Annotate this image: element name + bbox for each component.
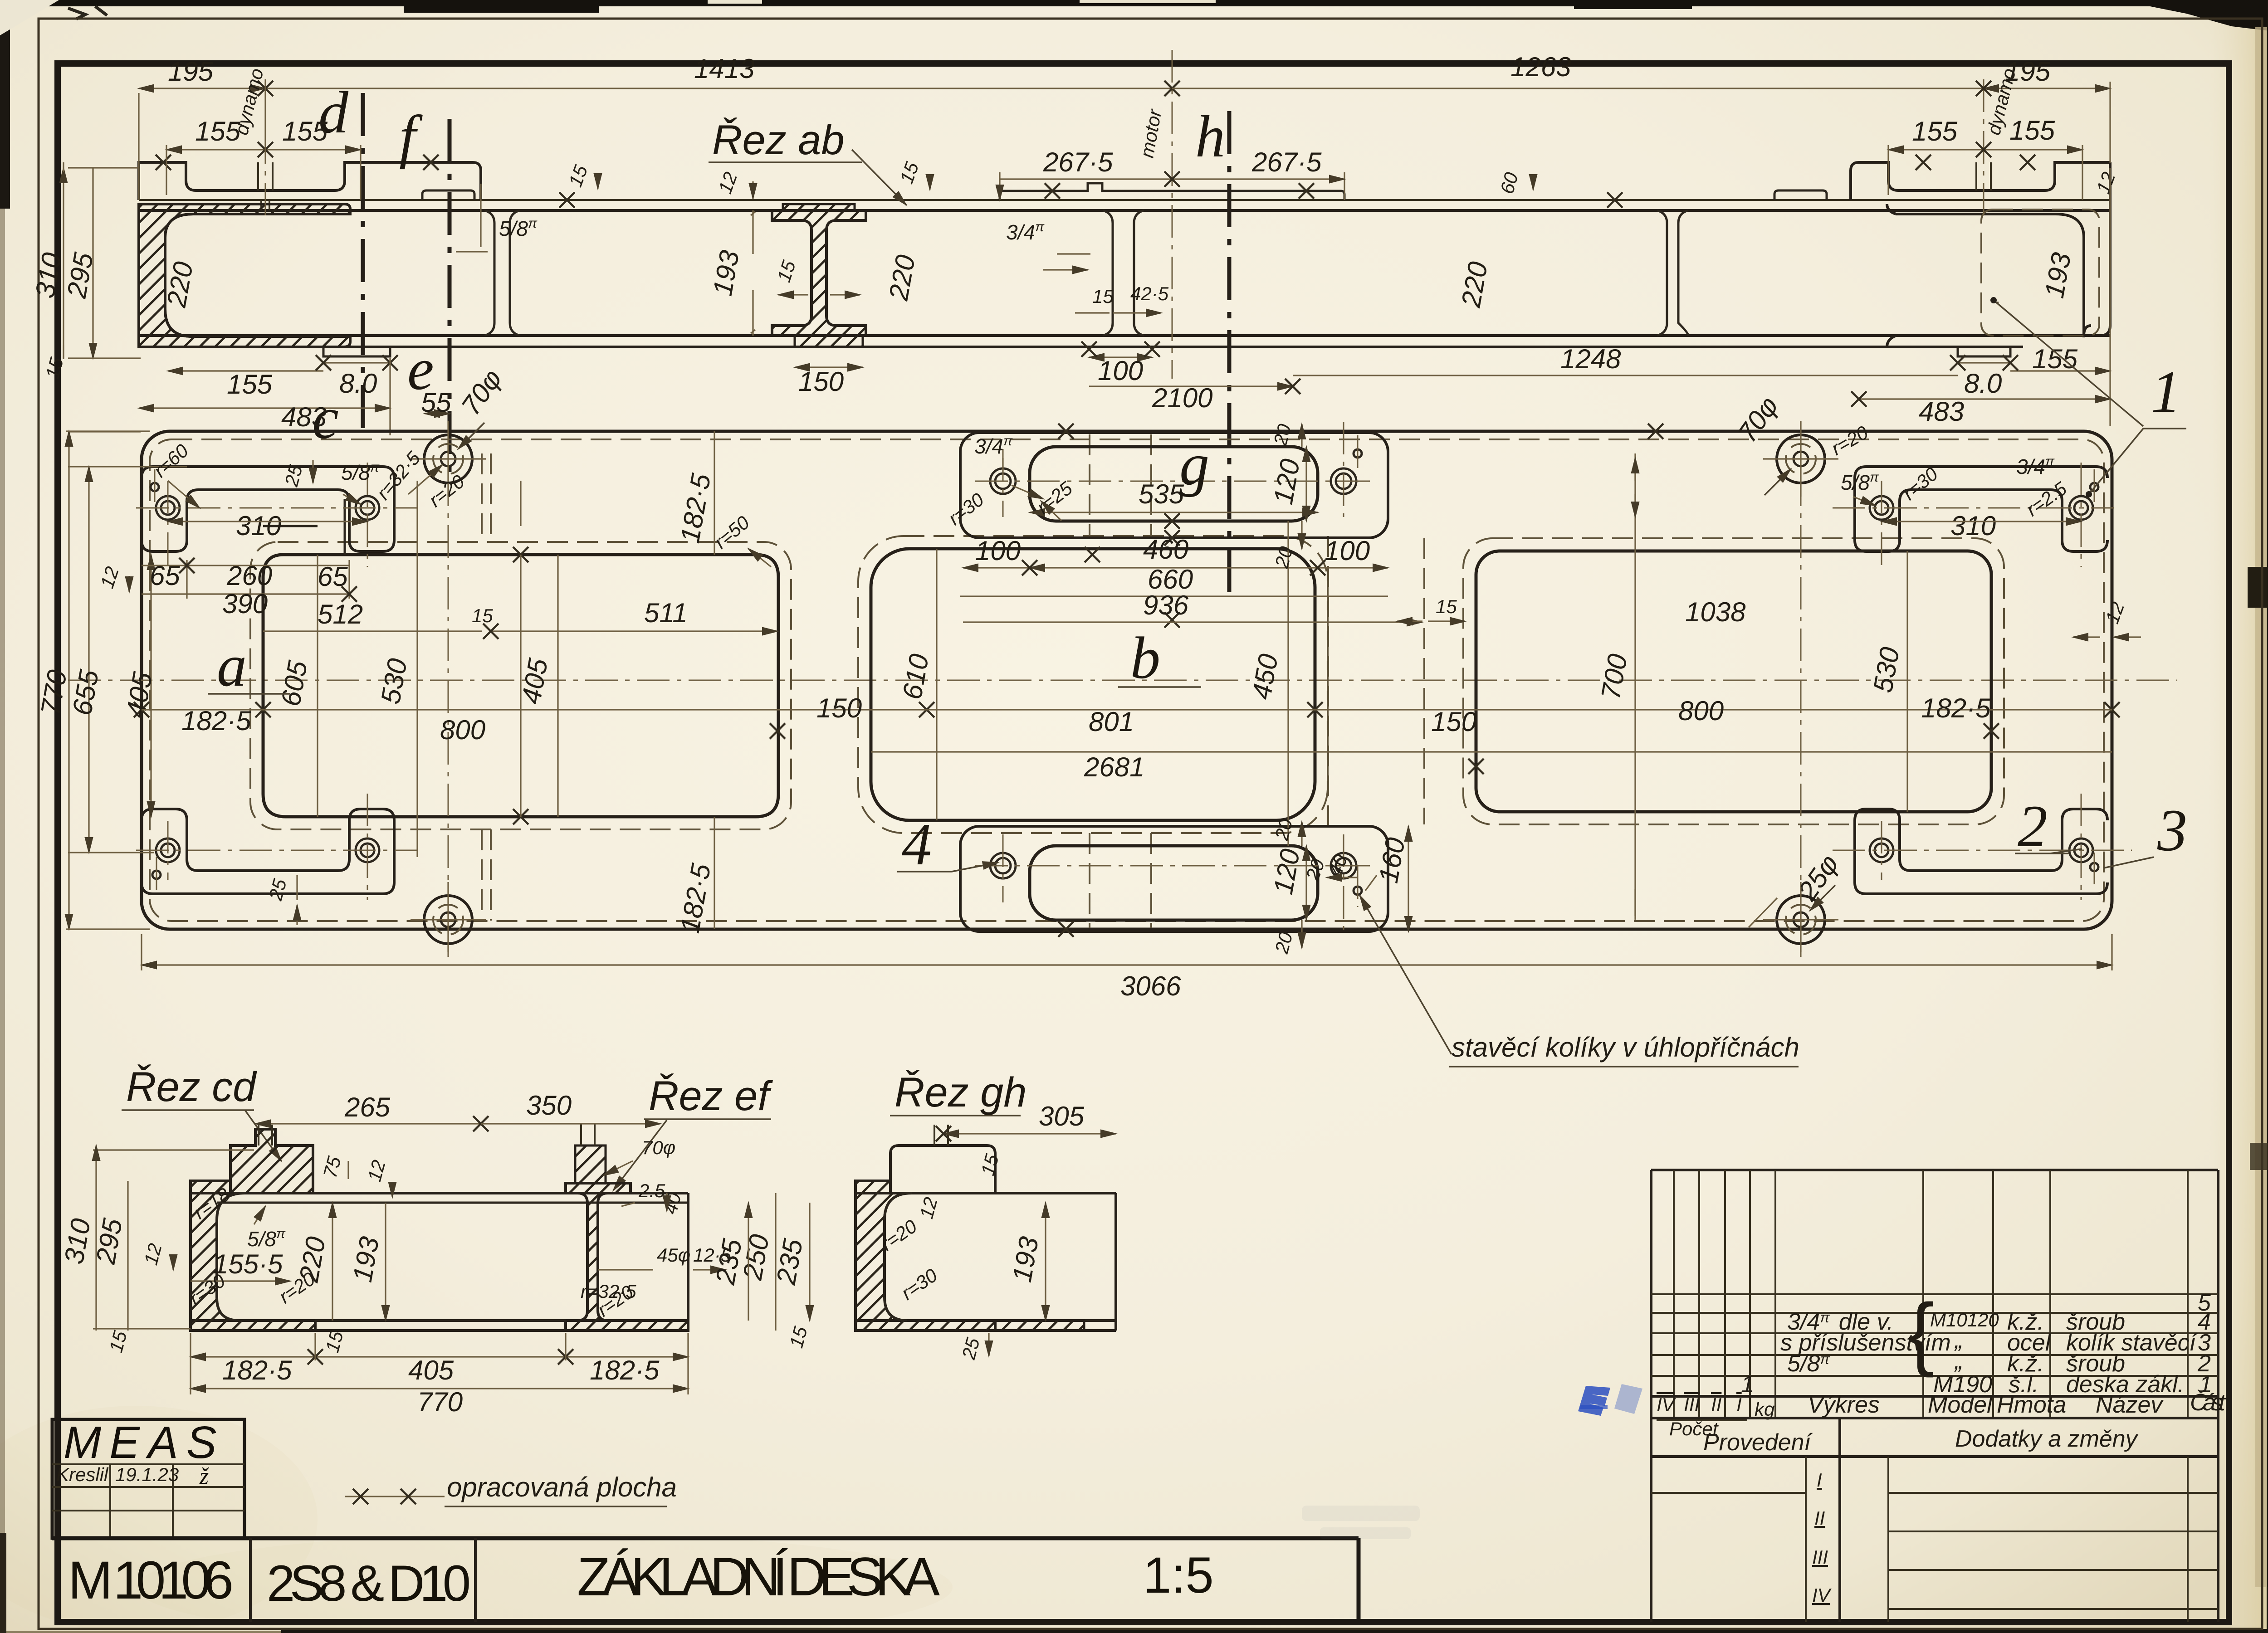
svg-text:100: 100: [1098, 356, 1143, 386]
svg-text:Výkres: Výkres: [1808, 1392, 1880, 1418]
ef boss on top: [575, 1146, 606, 1183]
svg-text:II: II: [1711, 1394, 1722, 1415]
dim 483 left: [139, 407, 390, 409]
svg-text:150: 150: [1431, 707, 1476, 737]
svg-text:512: 512: [318, 599, 363, 629]
bore circle 70 top-right: [1763, 421, 1838, 497]
svg-text:kg: kg: [1755, 1399, 1774, 1420]
pencil scribble top-left: [68, 6, 107, 19]
cd dim row 182.5 405 182.5: [191, 1356, 688, 1357]
section line c-d: [361, 93, 365, 433]
bore circle 25 bottom-right: [1763, 882, 1838, 952]
svg-text:182·5: 182·5: [222, 1355, 292, 1385]
ef hatched rib: [566, 1183, 688, 1331]
table top line: [1651, 1169, 2218, 1171]
right end channel outline (unhatched): [1887, 162, 2110, 347]
svg-text:8.0: 8.0: [339, 368, 377, 399]
svg-text:42·5: 42·5: [1130, 283, 1169, 304]
cd section band top line: [191, 1192, 688, 1194]
corner boss BR centerlines: [1833, 794, 2132, 900]
left vertical dim 655: [88, 467, 89, 853]
svg-text:IV: IV: [1812, 1584, 1832, 1606]
svg-text:155: 155: [195, 116, 241, 146]
corner boss BR bolts: [1870, 838, 2093, 862]
roman numeral column: [1806, 1457, 2188, 1622]
svg-text:8.0: 8.0: [1964, 368, 2002, 399]
gh boss stud lines: [934, 1125, 948, 1146]
left channel inner radius r30: [165, 214, 193, 336]
svg-text:2: 2: [2018, 793, 2048, 859]
corner boss BL pin: [152, 871, 161, 879]
section inner bottom line: [139, 334, 2110, 337]
corner boss BL centerlines: [136, 794, 417, 900]
top boss bolt right: [1331, 468, 1356, 494]
corner boss TL bolts: [156, 496, 379, 520]
svg-text:Řez cd: Řez cd: [126, 1064, 257, 1110]
dim 155 155 left: [166, 149, 361, 150]
cutout b: [871, 549, 1315, 820]
cutout right: [1476, 551, 1991, 812]
svg-text:770: 770: [417, 1387, 463, 1417]
cutout a hidden offset dashed: [250, 542, 791, 829]
ef boss stud lines: [581, 1124, 595, 1146]
plan horizontal centerline: [68, 680, 2177, 681]
svg-text:45φ: 45φ: [657, 1244, 690, 1266]
bottom slot cutout: [1030, 846, 1318, 920]
scan edge top: [0, 0, 2268, 6]
svg-text:Řez ef: Řez ef: [649, 1073, 773, 1119]
scan edge top-right corner blob: [2146, 0, 2268, 32]
cd hatched boss on top: [230, 1129, 313, 1193]
svg-text:M 10106: M 10106: [68, 1550, 234, 1610]
cd left hatched channel: [191, 1181, 315, 1331]
left vertical dim 770: [68, 431, 69, 929]
svg-text:350: 350: [526, 1090, 572, 1121]
hidden rib dashed pair x1062: [482, 453, 491, 921]
right end hidden pocket dashed: [1981, 210, 2099, 336]
svg-text:a: a: [217, 632, 247, 699]
dim 2100: [1089, 385, 1293, 387]
hatched middle I-beam rib: [772, 210, 866, 336]
svg-text:155·5: 155·5: [213, 1249, 283, 1279]
section line e-f: [448, 119, 452, 481]
gh inner radius: [885, 1193, 1116, 1321]
background rib pair at x2453-2500: [1103, 210, 1144, 336]
svg-text:1248: 1248: [1560, 344, 1621, 374]
svg-text:1: 1: [2151, 358, 2181, 425]
bottom dim line 155 8.0 left: [168, 363, 390, 371]
blue stamp: [1578, 1384, 1642, 1416]
scan stains: [0, 1406, 318, 1633]
left end channel hatched C-section: [139, 204, 350, 347]
top boss centerlines: [975, 422, 1374, 517]
cd right cavity rounded: [315, 1320, 566, 1322]
svg-text:Provedení: Provedení: [1703, 1429, 1813, 1456]
svg-text:Model: Model: [1928, 1392, 1993, 1418]
svg-text:155: 155: [282, 116, 328, 146]
section inner top line: [139, 209, 2110, 212]
dim 195 right: [1984, 88, 2110, 89]
cd cavity inner radius: [217, 1193, 245, 1321]
svg-text:„: „: [1954, 1348, 1963, 1374]
part rows horizontals: [1651, 1294, 2218, 1376]
corner boss TR pin: [2090, 483, 2098, 491]
svg-text:II: II: [1814, 1507, 1825, 1529]
surface finish x marks on section top: [156, 155, 171, 170]
svg-text:I: I: [1736, 1394, 1742, 1415]
bottom boss centerlines: [975, 834, 1374, 930]
svg-text:155: 155: [1912, 116, 1958, 146]
svg-text:800: 800: [440, 715, 485, 745]
svg-text:IV: IV: [1657, 1394, 1677, 1415]
svg-text:100: 100: [975, 536, 1021, 566]
centerline motor: [1172, 50, 1173, 379]
svg-text:3: 3: [2157, 797, 2187, 863]
svg-text:305: 305: [1039, 1101, 1085, 1131]
cd dim 770: [191, 1388, 688, 1389]
faint blue smudge stamp: [1302, 1506, 1420, 1539]
svg-text:{: {: [1907, 1287, 1935, 1378]
MEAS box frame: [52, 1419, 244, 1538]
cd dim 350 top: [481, 1123, 660, 1124]
svg-text:70φ: 70φ: [642, 1137, 675, 1158]
corner boss TR centerlines: [1833, 463, 2114, 567]
dim 195 left: [139, 88, 265, 89]
main 182.5/800/150/801 dim row line: [142, 709, 2112, 710]
bottom boss bolt right: [1331, 853, 1356, 878]
svg-text:Dodatky a změny: Dodatky a změny: [1955, 1426, 2139, 1452]
corner boss bottom-right: [1855, 809, 2107, 894]
svg-text:b: b: [1130, 624, 1160, 691]
svg-text:150: 150: [798, 366, 844, 397]
svg-text:182·5: 182·5: [590, 1355, 660, 1385]
section line g-h: [1227, 111, 1232, 596]
right bottom flange step: [1958, 347, 2010, 356]
title strip dividers: [250, 1538, 475, 1622]
svg-text:460: 460: [1143, 534, 1188, 565]
dim 155 155 right: [1888, 149, 2082, 150]
dim 267.5 267.5: [1000, 172, 1344, 200]
svg-text:260: 260: [226, 561, 272, 591]
svg-text:III: III: [1812, 1546, 1828, 1568]
bottom boss bolt left (item 4): [990, 853, 1016, 878]
svg-text:310: 310: [236, 511, 281, 541]
hatched I-beam top pad: [783, 204, 855, 210]
dim 3066 bottom: [142, 964, 2112, 965]
svg-text:1:5: 1:5: [1143, 1547, 1214, 1604]
svg-text:155: 155: [227, 369, 273, 400]
cd section bottom inner line: [191, 1319, 688, 1322]
corner boss BL bolts: [156, 838, 379, 862]
pocet column verticals: [1674, 1170, 1775, 1418]
dim 100 under rib2: [1089, 356, 1152, 358]
svg-text:155: 155: [2032, 344, 2078, 374]
dim 512 / 15 / 511 row: [263, 630, 777, 632]
svg-text:Název: Název: [2096, 1392, 2164, 1418]
left bottom flange step 8.0: [323, 347, 390, 356]
svg-text:MEAS: MEAS: [64, 1417, 225, 1468]
gh boss on top: [890, 1146, 995, 1193]
bore circle 70 bottom-left: [411, 882, 486, 952]
svg-text:2681: 2681: [1084, 752, 1144, 782]
bottom slot boss outline: [960, 826, 1388, 931]
cd end vertical: [191, 1181, 688, 1331]
plan inner dashed outline: [150, 439, 2104, 921]
svg-text:Kreslil: Kreslil: [56, 1464, 109, 1485]
cd section bottom outer line: [191, 1329, 688, 1332]
svg-text:3066: 3066: [1120, 971, 1181, 1001]
right dynamo boss top outline: [1851, 162, 2110, 200]
header row lines: [1651, 1396, 2218, 1418]
dim 65 65 260 390: [142, 560, 349, 599]
svg-text:ZÁKLADNÍ DESKA: ZÁKLADNÍ DESKA: [577, 1546, 940, 1607]
gh section band: [855, 1181, 1116, 1331]
svg-text:h: h: [1195, 103, 1225, 170]
vertical centerlines through bores: [448, 422, 1801, 957]
corner boss bottom-left: [142, 809, 394, 894]
title strip top line: [52, 1538, 1359, 1622]
svg-text:2S8 & D10: 2S8 & D10: [267, 1555, 471, 1612]
background rib pair at x3675: [1657, 210, 1688, 336]
dim 2681 line: [871, 751, 2112, 752]
plan outer outline: [142, 431, 2112, 929]
svg-text:Řez ab: Řez ab: [712, 117, 845, 163]
scan edge left: [0, 0, 5, 1633]
svg-text:2.5: 2.5: [638, 1180, 665, 1201]
svg-text:opracovaná plocha: opracovaná plocha: [447, 1472, 677, 1502]
right small boss: [1774, 190, 1827, 200]
cd section inner top line: [217, 1202, 688, 1204]
extension verticals left dims: [139, 82, 2110, 200]
corner boss BR pin: [2090, 863, 2098, 871]
section outer bottom line: [139, 346, 2023, 348]
MEAS box row lines: [52, 1464, 244, 1511]
svg-text:4: 4: [902, 811, 932, 877]
cd dim 265 top: [255, 1123, 481, 1124]
centerline dynamo left: [265, 79, 266, 218]
hatched I-beam lower pad 150: [795, 336, 863, 347]
svg-text:182·5: 182·5: [1921, 693, 1991, 723]
gh right bottom hatched flange: [995, 1321, 1084, 1331]
svg-text:483: 483: [281, 402, 327, 432]
svg-text:936: 936: [1143, 590, 1189, 620]
bottom boss dowel pin: [1354, 887, 1362, 895]
top boss bolt left 3/4: [990, 468, 1016, 494]
svg-text:M10120: M10120: [1930, 1309, 1999, 1331]
svg-text:III: III: [1684, 1394, 1700, 1415]
svg-text:ž: ž: [199, 1463, 209, 1489]
svg-text:1263: 1263: [1510, 52, 1571, 82]
top slot cutout: [1030, 447, 1318, 521]
svg-text:1413: 1413: [694, 54, 754, 84]
dim 55 near e line: [425, 413, 450, 414]
corner boss top-right: [1855, 467, 2107, 551]
middle motor boss top outline: [1000, 183, 1344, 200]
main column verticals: [1923, 1170, 2188, 1418]
bottom dim 8.0 155 right: [1958, 363, 2110, 371]
svg-text:15: 15: [1092, 286, 1114, 307]
svg-text:800: 800: [1678, 696, 1724, 726]
dims around cutout b: 100 460 100 660 936: [960, 568, 1422, 622]
dim 1263: [1172, 88, 1984, 89]
svg-text:195: 195: [168, 56, 214, 87]
svg-text:g: g: [1179, 431, 1209, 497]
background rib pair near x1100: [484, 210, 520, 336]
left vertical dim 405: [150, 555, 152, 817]
svg-text:65: 65: [318, 561, 348, 592]
svg-text:Hmota: Hmota: [1997, 1392, 2066, 1418]
gh left hatched wall: [855, 1181, 995, 1331]
svg-text:2100: 2100: [1152, 383, 1212, 413]
svg-text:1038: 1038: [1685, 597, 1746, 627]
svg-text:483: 483: [1919, 396, 1964, 427]
svg-text:150: 150: [816, 693, 862, 723]
rows in dodatky area: [1651, 1493, 2218, 1609]
hidden rib dashed pair between g-boss and b: [1090, 434, 1151, 928]
cutout a step lines top-left: [263, 499, 345, 555]
top boss dowel pin: [1354, 449, 1362, 458]
left extension lines: [66, 431, 187, 929]
dim 25 phi label line BR: [1749, 898, 1777, 927]
table outer verticals: [1651, 1170, 2218, 1622]
svg-text:65: 65: [150, 561, 180, 591]
right dynamo stud marks: [1976, 162, 1991, 190]
scan edge bottom: [281, 1629, 2268, 1633]
long extension line under section: [68, 168, 2110, 435]
top slot boss g outline: [960, 433, 1388, 538]
svg-text:390: 390: [222, 589, 268, 619]
left dynamo stud marks: [258, 162, 273, 210]
dim 483 right: [1859, 398, 2110, 400]
x marks on plan edges: [513, 547, 528, 562]
svg-text:405: 405: [408, 1355, 454, 1385]
svg-text:I: I: [1817, 1469, 1822, 1491]
svg-text:535: 535: [1139, 479, 1184, 509]
svg-text:Řez gh: Řez gh: [894, 1069, 1027, 1116]
hidden rib dashed pair x2928/x3140: [1328, 536, 1424, 833]
svg-text:511: 511: [644, 598, 688, 628]
small boss left of f line: [422, 190, 474, 200]
svg-text:1: 1: [1741, 1371, 1754, 1398]
svg-text:267·5: 267·5: [1043, 147, 1113, 177]
svg-text:155: 155: [2009, 115, 2055, 146]
svg-text:15: 15: [1436, 596, 1457, 617]
svg-text:100: 100: [1325, 536, 1370, 566]
scan edge right: [2267, 0, 2268, 1633]
cutout a: [263, 555, 778, 817]
cutout right hidden offset dashed: [1463, 538, 2004, 824]
svg-text:stavěcí kolíky v úhlopříčnách: stavěcí kolíky v úhlopříčnách: [1452, 1032, 1799, 1063]
bore circle 70 top-left: [411, 421, 486, 497]
svg-text:15: 15: [472, 605, 493, 626]
centerline dynamo right: [1983, 79, 1984, 218]
svg-text:310: 310: [1950, 511, 1996, 541]
section top machined surface line: [139, 199, 2110, 201]
corner boss top-left: [142, 467, 394, 551]
svg-text:55: 55: [421, 387, 451, 418]
svg-text:19.1.23: 19.1.23: [115, 1464, 179, 1485]
dim 1248: [1293, 375, 1958, 376]
provedeni dodatky header: [1651, 1418, 2218, 1622]
svg-text:801: 801: [1089, 707, 1134, 737]
dim 150 under I-beam: [795, 366, 863, 368]
svg-text:Část: Část: [2190, 1389, 2227, 1416]
cd boss stud lines: [259, 1125, 272, 1146]
corner boss TL centerlines: [136, 463, 417, 567]
left dynamo boss top outline: [139, 162, 481, 200]
corner boss TL pin: [151, 483, 159, 491]
svg-text:267·5: 267·5: [1251, 147, 1322, 177]
dim 1413: [265, 88, 1172, 89]
MEAS box column lines: [110, 1464, 173, 1538]
svg-text:265: 265: [344, 1092, 391, 1122]
cutout b hidden offset dashed: [858, 536, 1328, 833]
corner boss TR bolts: [1870, 496, 2093, 520]
gh dim 305 top: [943, 1133, 1116, 1134]
